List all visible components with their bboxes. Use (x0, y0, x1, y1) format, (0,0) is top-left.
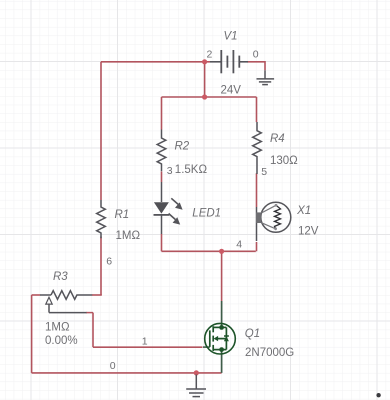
svg-text:1: 1 (142, 336, 148, 348)
wire net 3 (161, 172, 163, 183)
svg-text:130Ω: 130Ω (270, 155, 298, 167)
wire net 4 drain drop (221, 251, 223, 301)
label 130Ω (270, 155, 298, 167)
label Q1 (245, 328, 260, 340)
svg-text:4: 4 (236, 239, 242, 251)
wire net 2 horizontal top (101, 61, 210, 63)
label 12V (298, 225, 319, 237)
svg-text:V1: V1 (224, 30, 238, 42)
wire net 0 bottom rail (32, 372, 222, 374)
label R3 (53, 271, 68, 283)
svg-text:R3: R3 (53, 271, 68, 283)
wire R2 top (161, 97, 163, 130)
label 2N7000G (245, 347, 294, 359)
svg-text:1MΩ: 1MΩ (45, 322, 70, 334)
label 0.00% (45, 335, 78, 347)
node 1 (142, 336, 148, 348)
lamp X1 (256, 202, 291, 241)
ground top right (257, 70, 275, 84)
svg-text:0: 0 (253, 49, 259, 61)
svg-text:X1: X1 (296, 205, 311, 217)
svg-text:5: 5 (261, 166, 267, 178)
node 3 (167, 165, 173, 177)
junction node 2 top (202, 59, 207, 64)
svg-text:6: 6 (106, 256, 112, 268)
wire X1 bottom (256, 242, 258, 251)
svg-text:LED1: LED1 (192, 207, 221, 219)
node 0 battery (253, 49, 259, 61)
svg-text:1.5KΩ: 1.5KΩ (175, 164, 208, 176)
resistor R4 (253, 122, 262, 174)
label 1MΩ R1 (116, 230, 141, 242)
wire net 1 vertical (92, 313, 94, 348)
transistor Q1 (203, 301, 235, 373)
svg-text:R1: R1 (115, 209, 130, 221)
resistor R2 (157, 130, 166, 172)
potentiometer R3 (40, 291, 92, 300)
svg-text:24V: 24V (221, 85, 242, 97)
junction node 4 (219, 249, 224, 254)
LED1 (154, 182, 183, 234)
label R4 (270, 133, 285, 145)
svg-text:R2: R2 (175, 141, 190, 153)
wire R4 top (256, 97, 258, 122)
label X1 (296, 205, 311, 217)
resistor R1 (97, 200, 106, 238)
svg-text:0: 0 (110, 360, 116, 372)
wire net 2 24V rail (162, 96, 257, 98)
wire net 2 left vertical (100, 62, 102, 200)
svg-text:2N7000G: 2N7000G (245, 347, 294, 359)
wire net 5 (256, 173, 258, 207)
wire net 2 battery drop (204, 62, 206, 97)
svg-text:3: 3 (167, 165, 173, 177)
wire net 0 battery right (248, 62, 266, 71)
node 6 (106, 256, 112, 268)
svg-text:R4: R4 (270, 133, 285, 145)
svg-text:1MΩ: 1MΩ (116, 230, 141, 242)
label R1 (115, 209, 130, 221)
ground bottom (186, 375, 206, 397)
wire net 6 vertical (100, 237, 102, 296)
node 2 (207, 49, 213, 61)
stray mark (376, 393, 380, 397)
label 1MΩ R3 (45, 322, 70, 334)
label 1.5KΩ (175, 164, 208, 176)
node 4 (236, 239, 242, 251)
label R2 (175, 141, 190, 153)
junction node 0 ground (194, 370, 199, 375)
svg-text:0.00%: 0.00% (45, 335, 78, 347)
wire net 4 bottom rail (162, 250, 256, 252)
wire R3 left red stub (32, 294, 41, 296)
svg-text:Q1: Q1 (245, 328, 260, 340)
battery V1 (210, 50, 248, 73)
wire net 6 horizontal (92, 294, 102, 296)
wire net 1 gate rail (93, 346, 203, 348)
R3 wiper arrow (46, 297, 93, 312)
label 24V (221, 85, 242, 97)
wire LED1 bottom (161, 234, 163, 251)
node 5 (261, 166, 267, 178)
label V1 (224, 30, 238, 42)
node 0 (110, 360, 116, 372)
svg-text:12V: 12V (298, 225, 319, 237)
svg-text:2: 2 (207, 49, 213, 61)
label LED1 (192, 207, 221, 219)
junction node 2 rail (202, 94, 207, 99)
wire net 0 left vertical (31, 295, 33, 373)
